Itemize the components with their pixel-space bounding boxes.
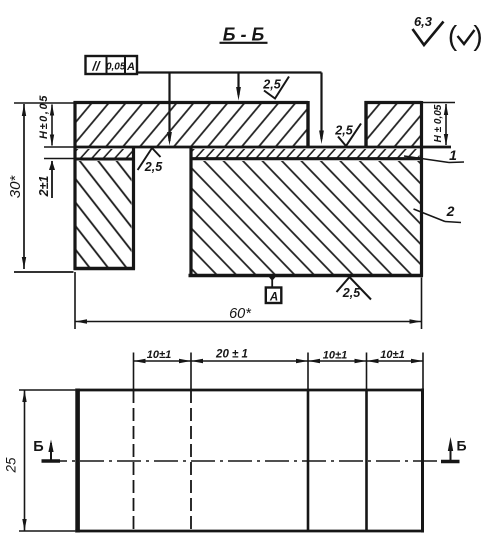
hidden slot edge dashed left [133, 390, 135, 531]
roughness 2,5 on top surface [262, 77, 289, 99]
svg-text:Б: Б [456, 438, 466, 454]
svg-text:30*: 30* [7, 175, 24, 199]
callout 2 [414, 203, 462, 223]
svg-text:20 ± 1: 20 ± 1 [215, 349, 248, 361]
svg-text:25: 25 [4, 457, 19, 474]
section plane arrow right Б [441, 437, 467, 462]
top dimension chain of plan view [134, 349, 424, 391]
datum flag A [266, 275, 282, 304]
hidden slot edge dashed right [190, 390, 192, 531]
roughness (check) in parentheses [448, 20, 483, 51]
plan rect right edge [421, 389, 424, 533]
svg-text:2: 2 [446, 203, 455, 219]
dimension H±0,05 left [38, 94, 74, 159]
svg-text:2,5: 2,5 [334, 124, 353, 138]
part outline: right edge [420, 101, 423, 277]
svg-text:А: А [126, 61, 135, 73]
slot left wall [132, 147, 135, 270]
svg-text:6,3: 6,3 [414, 14, 433, 29]
hatch region upper band right tooth [366, 104, 421, 147]
hatch region main block [193, 161, 421, 274]
svg-text:H±0,05: H±0,05 [38, 94, 50, 139]
roughness 2,5 in slot [138, 148, 164, 174]
main block bottom edge [189, 274, 424, 278]
centerline dash-dot [43, 460, 458, 462]
svg-text:2,5: 2,5 [262, 78, 281, 92]
strip bottom line left segment [74, 158, 136, 161]
svg-text:А: А [269, 292, 278, 304]
callout 1 [404, 147, 464, 163]
dimension 2±1 left [37, 161, 55, 199]
svg-text://: // [91, 59, 101, 74]
part outline: notch left wall [306, 101, 309, 147]
svg-text:Б - Б: Б - Б [223, 25, 265, 45]
dimension H±0,05 right [423, 103, 455, 146]
dimension 60* bottom of section [75, 272, 422, 329]
part outline: left edge [73, 101, 76, 270]
roughness general 6,3 top right [413, 14, 444, 45]
notch edge solid left [307, 390, 310, 531]
plan rect top edge [75, 389, 423, 392]
section title Б-Б [220, 25, 268, 45]
svg-text:(: ( [448, 20, 458, 51]
tolerance frame // 0,05 A [86, 56, 138, 74]
left column bottom edge [74, 267, 136, 270]
hatch region gasket strip left [77, 149, 133, 158]
svg-text:2,5: 2,5 [144, 160, 163, 174]
svg-text:Б: Б [33, 439, 43, 455]
dimension 25 left of plan [4, 390, 76, 531]
svg-text:H ± 0,05: H ± 0,05 [433, 104, 444, 142]
section plane arrow left Б [33, 439, 60, 461]
svg-text:60*: 60* [229, 306, 252, 322]
notch edge solid right [365, 390, 368, 531]
svg-text:2,5: 2,5 [342, 286, 361, 300]
svg-text:): ) [473, 20, 482, 51]
hatch region left column [77, 161, 132, 267]
roughness 2,5 in notch bottom [334, 124, 361, 147]
svg-text:2±1: 2±1 [37, 176, 51, 198]
hatch region upper band left [75, 104, 308, 147]
plan rect left edge (thick) [75, 389, 80, 533]
roughness 2,5 on bottom surface [337, 277, 372, 300]
tolerance leader lines with arrows [137, 73, 324, 146]
strip top line (notch bottom), extended right for H dim [74, 146, 452, 149]
svg-text:0,05: 0,05 [106, 62, 126, 73]
plan rect bottom edge [75, 530, 423, 533]
hatch region gasket strip right [193, 149, 420, 158]
slot right wall [189, 147, 192, 277]
svg-text:1: 1 [449, 147, 457, 163]
part outline: top surface [74, 101, 309, 104]
svg-text:10±1: 10±1 [323, 350, 347, 362]
svg-text:10±1: 10±1 [147, 349, 171, 361]
strip bottom line right segment [190, 157, 422, 160]
part outline: right tooth top [365, 101, 422, 104]
dimension 30* left [7, 103, 74, 272]
part outline: notch right wall [364, 101, 367, 147]
svg-text:10±1: 10±1 [380, 349, 404, 361]
